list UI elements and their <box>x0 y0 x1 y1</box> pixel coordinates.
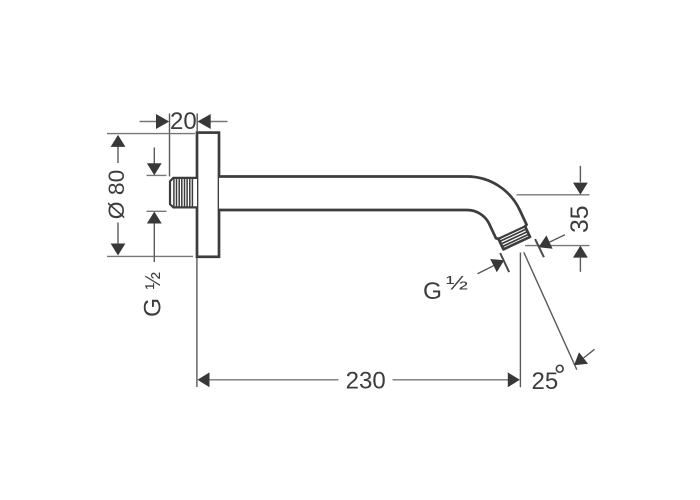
svg-text:°: ° <box>554 360 566 393</box>
dimension 20 line right tail <box>210 121 228 123</box>
25deg leader tail <box>584 349 595 358</box>
wall thread ribs <box>174 179 193 207</box>
tip G1/2 arrow tail <box>550 235 566 242</box>
dimension D80 arrow up <box>111 135 126 147</box>
tip thread ring 3 <box>502 234 529 246</box>
dimension 20 line left tail <box>140 121 159 123</box>
dimension 230 extension left <box>196 258 198 387</box>
dimension 35 arrow up <box>573 246 588 258</box>
wall thread G1/2 upper arrow line <box>153 148 155 165</box>
svg-text:Ø 80: Ø 80 <box>104 170 129 220</box>
dimension 20 arrow left <box>156 114 169 129</box>
wall thread G1/2 lower arrow line <box>153 224 155 263</box>
dimension 35 bottom reference line <box>525 245 590 247</box>
svg-text:½: ½ <box>446 274 468 295</box>
dimension 230 arrow left <box>198 372 210 387</box>
dimension 230 line left segment <box>209 379 339 381</box>
dimension D80 line top segment <box>117 136 119 163</box>
svg-text:20: 20 <box>170 108 197 135</box>
tip G1/2 leader arrow <box>490 259 504 272</box>
25deg slant line <box>524 252 577 369</box>
tip thread start face <box>498 226 525 238</box>
tip G1/2 leader line <box>478 266 494 274</box>
tip thread ring 2 <box>501 232 528 244</box>
tip thread ring 1 <box>500 229 527 241</box>
dimension 20 extension line right <box>196 114 198 133</box>
tip G1/2 arrow upper-right <box>539 235 553 248</box>
dimension D80 extension top <box>107 133 195 135</box>
svg-text:G: G <box>423 278 442 305</box>
shower arm pipe <box>219 177 530 250</box>
dimension 20 arrow right <box>198 114 211 129</box>
tip G1/2 tick upper-right <box>535 239 544 257</box>
dimension D80 arrow down <box>111 244 126 256</box>
wall thread G1/2 lower arrow <box>147 212 162 224</box>
dimension 20 extension line left <box>169 114 171 177</box>
svg-text:G: G <box>140 298 167 317</box>
wall thread G1/2 tick top <box>147 174 167 176</box>
25deg leader arrow <box>574 352 588 365</box>
dimension 230 arrow right <box>508 372 520 387</box>
wall thread G1/2 upper arrow <box>147 163 162 175</box>
dimension 35 upper line <box>579 166 581 182</box>
svg-text:230: 230 <box>346 368 386 395</box>
dimension 230 line right segment <box>393 379 509 381</box>
wall inlet thread <box>170 178 197 208</box>
dimension D80 extension bottom <box>107 255 193 257</box>
dimension 35 top reference line <box>517 194 590 196</box>
dimension 35 arrow down <box>573 183 588 195</box>
wall thread G1/2 text <box>140 272 167 317</box>
svg-text:35: 35 <box>566 206 594 234</box>
tip G1/2 tick lower-left <box>500 253 509 272</box>
dimension 35 lower line <box>579 258 581 272</box>
wall plate flange <box>197 133 219 257</box>
dimension D80 line bottom segment <box>117 223 119 255</box>
dimension 230 extension right / 25deg vertical <box>519 253 521 388</box>
svg-text:½: ½ <box>142 272 165 290</box>
wall thread G1/2 tick bottom <box>147 210 167 212</box>
